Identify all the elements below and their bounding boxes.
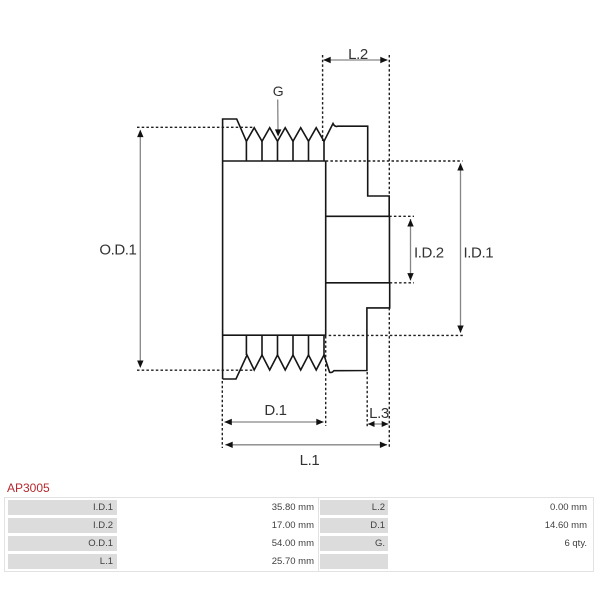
extension line I.D.1 top <box>326 160 463 162</box>
body bottom line <box>223 334 326 336</box>
svg-text:I.D.2: I.D.2 <box>414 245 444 262</box>
body right internal edge <box>325 161 327 335</box>
right table values <box>390 500 592 515</box>
left table values <box>119 500 317 515</box>
extension line I.D.2 bottom <box>390 282 414 284</box>
extension line O.D.1 bottom <box>137 369 255 371</box>
dimension O.D.1 <box>139 131 141 367</box>
dimension L.2 <box>324 59 388 61</box>
extension line I.D.1 bottom <box>324 334 465 336</box>
left table border <box>4 497 319 572</box>
extension line D.1/L.1 left <box>221 381 223 448</box>
svg-text:D.1: D.1 <box>264 402 286 419</box>
dimension I.D.2 <box>410 219 412 280</box>
pulley upper profile outline <box>223 119 390 379</box>
svg-text:O.D.1: O.D.1 <box>99 241 136 258</box>
leader arrow G <box>277 100 279 132</box>
hub right face vertical <box>388 216 390 282</box>
svg-text:G: G <box>273 83 284 99</box>
svg-text:L.2: L.2 <box>348 46 368 63</box>
bottom groove root verticals <box>246 335 324 355</box>
dimension I.D.1 <box>460 164 462 333</box>
extension line D.1 right <box>325 336 327 426</box>
svg-text:L.1: L.1 <box>300 452 320 469</box>
svg-text:L.3: L.3 <box>369 405 389 422</box>
dimension L.1 <box>225 444 386 446</box>
extension line I.D.2 top <box>389 215 414 217</box>
extension line L.3 left <box>366 372 368 428</box>
top groove root verticals <box>246 141 324 161</box>
body top line <box>223 160 326 162</box>
product code <box>7 481 50 495</box>
dimension D.1 <box>225 421 324 423</box>
extension line L.3/L.1 right lower <box>388 308 390 448</box>
left table labels <box>8 500 117 515</box>
extension line L.2 left <box>322 55 324 141</box>
right table labels <box>320 500 388 515</box>
dimension L.3 <box>368 423 388 425</box>
pulley lower profile outline <box>223 283 390 379</box>
extension line L.2/L.3/L.1 right upper <box>388 55 390 196</box>
right table border <box>318 497 594 572</box>
svg-text:I.D.1: I.D.1 <box>464 245 494 262</box>
extension line O.D.1 top <box>137 126 255 128</box>
